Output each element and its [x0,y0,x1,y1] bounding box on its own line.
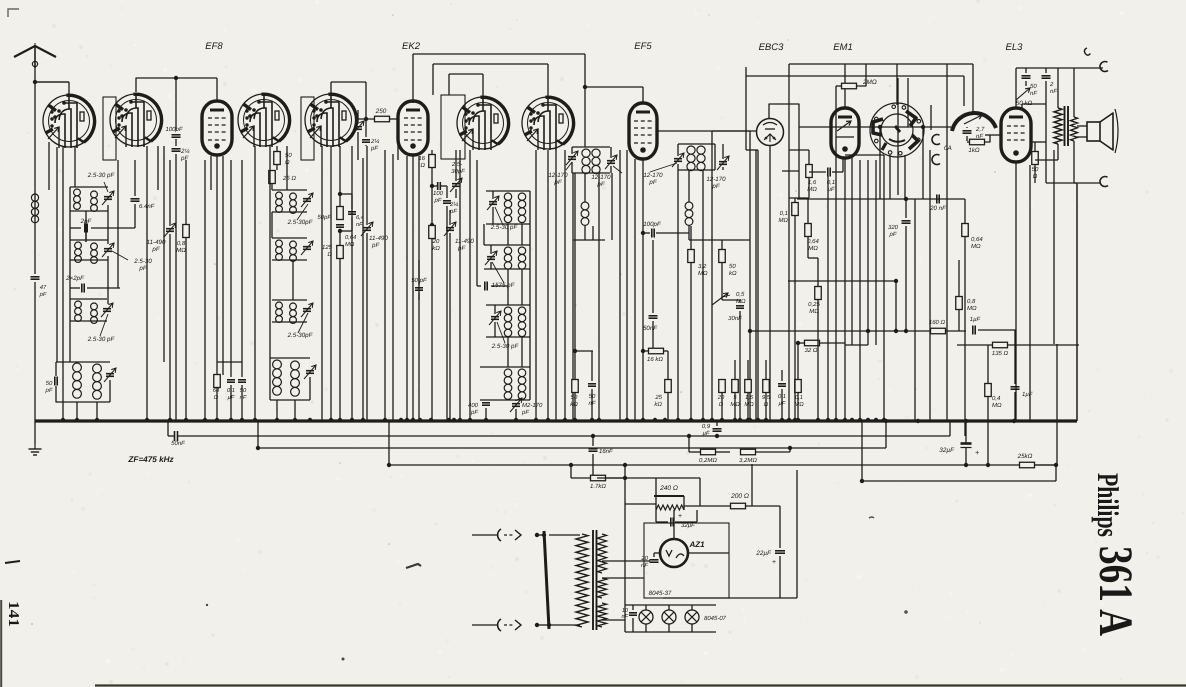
wire [867,160,869,345]
svg-text:ZF=475 kHz: ZF=475 kHz [127,455,174,464]
wire [592,226,594,240]
wire [907,78,909,127]
wire [808,257,818,259]
label leader [650,163,677,172]
wire [455,189,457,198]
svg-text:25kΩ: 25kΩ [1017,453,1033,460]
svg-text:50: 50 [571,394,578,401]
ground [34,444,36,449]
capacitor 0.9µF [713,428,722,430]
capacitor 2nF [1042,75,1051,77]
dial lamp [685,610,699,624]
scan edge bottom [95,684,1186,686]
svg-text:kΩ: kΩ [570,401,578,408]
wire [655,478,657,496]
wire [365,119,367,137]
wire [879,127,881,199]
wire [85,232,87,242]
wire [794,198,796,202]
wire [185,238,187,420]
wire [339,146,341,207]
junction [240,418,244,422]
wire [625,503,656,505]
wire [664,350,668,352]
wire [836,85,841,87]
wire [537,534,544,536]
wire [472,624,497,626]
wire [521,224,523,245]
capacitor 400pF [482,402,490,404]
junction [184,418,188,422]
coil band4 L1 [273,360,282,369]
svg-text:M2-170: M2-170 [522,402,543,409]
node [338,192,342,196]
svg-text:0,64: 0,64 [345,234,356,241]
svg-text:nF: nF [1030,90,1037,97]
wire [1045,81,1047,104]
wire [655,504,657,510]
wire [1016,67,1103,69]
coil IFT1 secondary [581,202,589,210]
wire [167,420,169,436]
junction [293,418,297,422]
wire [781,389,783,420]
wire [271,184,273,190]
wire [819,342,845,344]
svg-text:MΩ: MΩ [176,247,186,254]
coil band2 L2 [91,243,98,250]
wire [798,342,805,344]
junction [878,125,882,129]
wire [270,399,310,401]
wire [1077,125,1087,127]
wire [175,78,177,131]
coil band3 L2 [91,303,98,310]
coil osc2 L1 [504,247,511,254]
wire [757,150,759,420]
junction [590,418,594,422]
resistor 1kΩ [970,139,985,145]
wire [678,143,715,145]
junction [514,418,518,422]
wire [34,82,36,274]
wire [163,146,165,362]
tube EF8 envelope [202,101,232,155]
wire [632,605,634,610]
output transformer primary [1054,108,1062,144]
wire [507,337,509,367]
svg-text:12-170: 12-170 [706,176,726,183]
svg-text:pF: pF [470,409,478,416]
junction [916,419,920,423]
dial lamp [662,610,676,624]
wire [70,186,108,188]
wire [56,386,70,402]
wire [70,320,107,322]
wire [652,321,654,348]
wire [1076,183,1078,421]
svg-text:2MΩ: 2MΩ [862,79,877,86]
wire [339,259,341,420]
wire [486,336,530,338]
trimmer 2.5-30pF [306,370,314,372]
svg-text:nF: nF [1050,88,1057,95]
coil band3 L2 [290,303,297,310]
wire [357,110,359,124]
wire [602,577,644,579]
junction [796,341,800,345]
junction [793,418,797,422]
svg-text:0,64: 0,64 [807,238,819,245]
junction [484,418,488,422]
svg-text:pF: pF [711,183,720,190]
capacitor 0.1µF [827,168,829,177]
wire [683,496,685,504]
tube EM1 target [870,103,924,157]
capacitor 1µF [972,326,974,335]
resistor 20Ω [719,380,726,393]
trimmer 2.5-30pF [452,183,460,185]
wire [107,256,109,304]
svg-text:141: 141 [5,601,21,627]
resistor 32Ω [805,340,820,346]
junction [573,349,577,353]
wire [459,150,461,420]
capacitor 50pF [415,287,423,289]
wire [70,298,107,300]
coil band4 L2 [291,361,300,370]
wire [547,64,549,97]
label leader [495,207,503,225]
wire [34,420,36,444]
wire [70,227,81,229]
wire [788,64,790,117]
resistor 250Ω [375,116,390,122]
resistor 2MΩ [842,83,857,89]
wire [779,506,781,548]
wire [905,226,907,331]
headphone hook bottom [1100,177,1108,187]
tube EK2 envelope [398,101,428,155]
junction [253,418,257,422]
capacitor 2x2pF [81,284,83,293]
wire [418,156,420,420]
label leader [112,251,128,260]
svg-text:EF8: EF8 [205,41,223,52]
capacitor 47pF [31,276,40,278]
screen box [301,97,314,160]
resistor 16kΩ [649,348,664,354]
wire [384,150,386,420]
junction [215,418,219,422]
wire [331,81,366,83]
wire [845,154,884,156]
wire [657,130,750,132]
svg-text:240 Ω: 240 Ω [659,485,678,492]
wire [1029,165,1031,421]
dial lamp [639,610,653,624]
resistor 200Ω [731,503,746,509]
svg-text:0,1: 0,1 [795,394,803,401]
coil band2 L2 [290,241,297,248]
svg-text:1,6: 1,6 [745,394,754,401]
wire [624,464,626,632]
wire [272,321,307,323]
capacitor 2.2pF [172,148,181,150]
mains transformer primary [576,534,588,627]
wire [74,147,76,187]
wire [117,160,119,288]
svg-text:20: 20 [717,394,725,401]
svg-text:11-490: 11-490 [455,238,474,245]
coil band2 L1 [75,242,82,249]
wire [739,451,741,453]
coil IFT2 secondary [685,202,693,210]
wire [610,166,612,173]
wire [34,282,36,420]
capacitor 2.7nF [963,130,972,132]
resistor 5MΩ [732,380,739,393]
svg-text:2.5-30pF: 2.5-30pF [287,332,314,339]
wire [797,393,799,420]
wire [739,311,741,420]
svg-text:MΩ: MΩ [794,401,804,408]
wire [448,74,450,95]
wire [857,64,866,86]
tube V5 hexode (EK2 section) [457,97,509,149]
trimmer 2.5-30pF [106,373,114,375]
junction [738,418,742,422]
wire [667,393,669,420]
svg-text:0,64: 0,64 [971,236,983,243]
svg-text:2.5-30: 2.5-30 [133,258,152,265]
wire [972,64,974,112]
wire [366,233,368,420]
scan edge left [0,600,2,687]
wire [484,244,530,246]
svg-text:1µF: 1µF [970,316,981,323]
junction [641,349,645,353]
wire [62,147,64,420]
coil band1 L1 [74,189,81,196]
junction [653,418,657,422]
potentiometer 0.5MΩ [712,293,728,305]
wire [357,132,359,160]
wire [521,269,523,305]
wire [175,139,177,146]
svg-text:pF: pF [151,246,160,253]
label leader [100,314,108,336]
wire [610,147,612,158]
trimmer 2.5-30pF [303,246,311,248]
wire [756,451,790,453]
wire [241,385,243,420]
wire [745,67,747,150]
wire [779,556,781,598]
node antenna junction [33,80,37,84]
wire [365,82,367,119]
wire [655,510,657,522]
capacitor 1575pF [484,282,486,291]
wire [807,198,809,223]
svg-text:50: 50 [729,263,736,270]
wire [985,134,1001,136]
wire [688,226,690,240]
wire [216,374,218,376]
wire [230,160,232,362]
wire [656,521,668,523]
transformer secondary heater2 [598,603,607,627]
wire [169,234,171,420]
wire [844,158,846,420]
label leader [298,313,308,333]
junction [338,418,342,422]
junction [563,418,567,422]
wire [721,240,723,249]
wire [1073,68,1075,117]
resistor 0.64MΩ [337,207,344,220]
wire [678,169,715,171]
trimmer 12-170pF [607,160,615,162]
label leader [613,166,622,173]
svg-text:Ω: Ω [420,162,425,169]
junction [625,418,629,422]
resistor 160Ω [931,328,946,334]
junction [405,418,409,422]
svg-text:1kΩ: 1kΩ [968,147,980,154]
wire [490,245,492,254]
wire [797,343,799,379]
wire [230,385,232,420]
wire [1035,159,1058,161]
wire [688,436,690,452]
svg-text:47: 47 [40,284,47,291]
wire [611,173,613,240]
wire [418,293,420,300]
wire [109,380,111,402]
junction [787,418,791,422]
wire [216,78,218,101]
svg-text:50: 50 [46,380,53,387]
wire [272,211,307,213]
wire [469,150,471,420]
svg-text:25 Ω: 25 Ω [282,175,296,182]
junction [733,418,737,422]
coil antenna choke [31,194,38,201]
wire [964,199,966,223]
tube EBC3 [757,119,784,146]
coil osc2 L2 [518,247,525,254]
junction [850,418,854,422]
wire [883,155,885,421]
capacitor 100pF [437,182,439,190]
capacitor 2.2pF [443,200,451,202]
junction [418,418,422,422]
wire [1053,150,1055,344]
junction [748,329,752,333]
wire [985,135,990,142]
trimmer 11-490pF [446,227,454,229]
svg-text:pF: pF [370,145,378,152]
trimmer 12-170pF [719,161,727,163]
coil band4 L2 [93,364,102,373]
wire [667,351,669,379]
svg-text:2.5-30 pF: 2.5-30 pF [491,343,520,350]
junction [756,418,760,422]
junction [597,418,601,422]
wire [655,496,657,504]
wire [241,160,243,362]
wire [351,146,353,420]
trimmer 12-170pF [568,156,576,158]
resistor 50kΩ [572,380,579,393]
resistor 1.7kΩ [591,475,606,481]
wire [216,156,218,420]
capacitor 2pF [84,224,86,233]
junction [894,279,898,283]
wire [949,421,951,436]
svg-text:12-170: 12-170 [643,172,663,179]
coil band1 L1 [276,192,283,199]
wire [271,212,273,238]
svg-text:200 Ω: 200 Ω [730,493,749,500]
wire [35,81,69,83]
wire [574,393,576,420]
wire [965,448,967,465]
wire [930,105,932,130]
wire [1014,392,1016,421]
label leader [723,295,730,297]
wire [340,193,352,195]
trimmer M2-170pF [512,403,520,405]
wire [677,164,679,170]
wire [272,259,307,261]
svg-text:32 Ω: 32 Ω [805,347,818,354]
wire [482,74,484,97]
svg-text:0,9: 0,9 [702,423,711,430]
wire [716,451,730,453]
svg-text:32µF: 32µF [939,447,955,454]
junction [468,418,472,422]
svg-text:100: 100 [433,190,444,197]
capacitor 0.1µF [227,379,235,381]
wire [1022,103,1046,105]
svg-text:EM1: EM1 [833,42,853,53]
wire [56,147,58,362]
wire [964,237,966,436]
tube EL3 envelope [1001,108,1031,162]
svg-text:pF: pF [180,155,189,162]
wire [645,624,647,632]
wire [529,191,531,400]
wire [1025,68,1027,73]
resistor 3.2MΩ [741,449,756,455]
wire [431,168,433,420]
wire [571,147,573,154]
wire [134,204,136,228]
wire [602,619,625,621]
antenna [34,46,36,68]
junction [61,418,65,422]
wire [549,534,580,536]
resistor 0.2MΩ [701,449,716,455]
wire [721,393,723,420]
svg-text:kΩ: kΩ [654,401,662,408]
resistor 0.25MΩ [815,287,822,300]
wire [817,258,819,286]
junction [843,418,847,422]
wire [632,618,634,632]
